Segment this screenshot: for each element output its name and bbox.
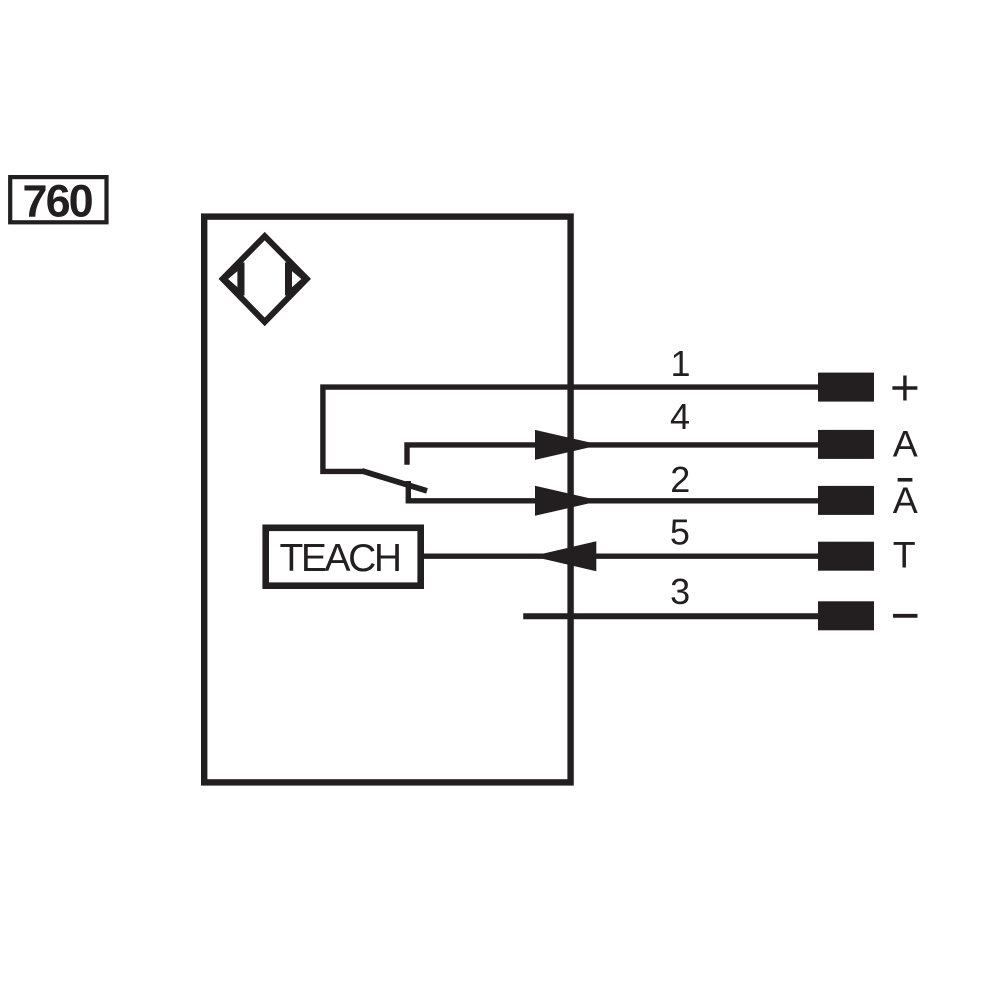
label − (minus, pin 3) — [893, 614, 918, 618]
terminal block pin 2 — [818, 486, 874, 515]
svg-text:A: A — [893, 479, 918, 521]
pin number 3 — [670, 571, 690, 612]
terminal block pin 5 — [818, 542, 874, 571]
svg-text:2: 2 — [670, 459, 690, 500]
pin number 1 — [670, 343, 690, 384]
figure number badge 760 box — [10, 177, 106, 222]
svg-text:T: T — [893, 534, 916, 576]
svg-text:3: 3 — [670, 571, 690, 612]
arrow on wire 4 pointing right — [535, 430, 600, 460]
wire pin 4 (A) with open contact stub — [407, 445, 819, 465]
label A (pin 4 output) — [893, 422, 918, 464]
svg-text:760: 760 — [23, 176, 93, 227]
figure number badge 760 text — [23, 176, 93, 227]
terminal block pin 1 — [818, 373, 874, 402]
switch arm (common to pin 2 contact) — [362, 471, 427, 491]
pin number 5 — [670, 512, 690, 553]
TEACH function box — [266, 528, 421, 586]
wire pin 1 (+) with branch down to switch common — [323, 387, 819, 471]
wire pin 5 (T) from TEACH box — [424, 554, 819, 559]
terminal block pin 4 — [818, 430, 874, 459]
svg-text:5: 5 — [670, 512, 690, 553]
arrow on wire 2 pointing right — [535, 486, 600, 516]
svg-text:A: A — [893, 422, 918, 464]
label A-bar (pin 2 output) — [893, 479, 918, 521]
label + (plus, pin 1) — [892, 376, 917, 401]
svg-text:1: 1 — [670, 343, 690, 384]
TEACH label — [280, 537, 400, 580]
sensor body rectangle — [204, 217, 570, 783]
svg-text:4: 4 — [670, 396, 690, 437]
sensor optics symbol: right triangle — [288, 263, 305, 296]
wire pin 3 (−) — [523, 613, 818, 619]
wire pin 2 (A-bar) with closed contact stub — [408, 481, 818, 501]
label T (pin 5 teach input) — [893, 534, 916, 576]
sensor optics symbol: left triangle — [225, 263, 242, 296]
terminal block pin 3 — [818, 601, 874, 630]
pin number 4 — [670, 396, 690, 437]
arrow on wire 5 pointing left — [532, 541, 596, 571]
sensor optics symbol: outer diamond — [223, 236, 307, 322]
svg-text:TEACH: TEACH — [280, 537, 400, 580]
pin number 2 — [670, 459, 690, 500]
